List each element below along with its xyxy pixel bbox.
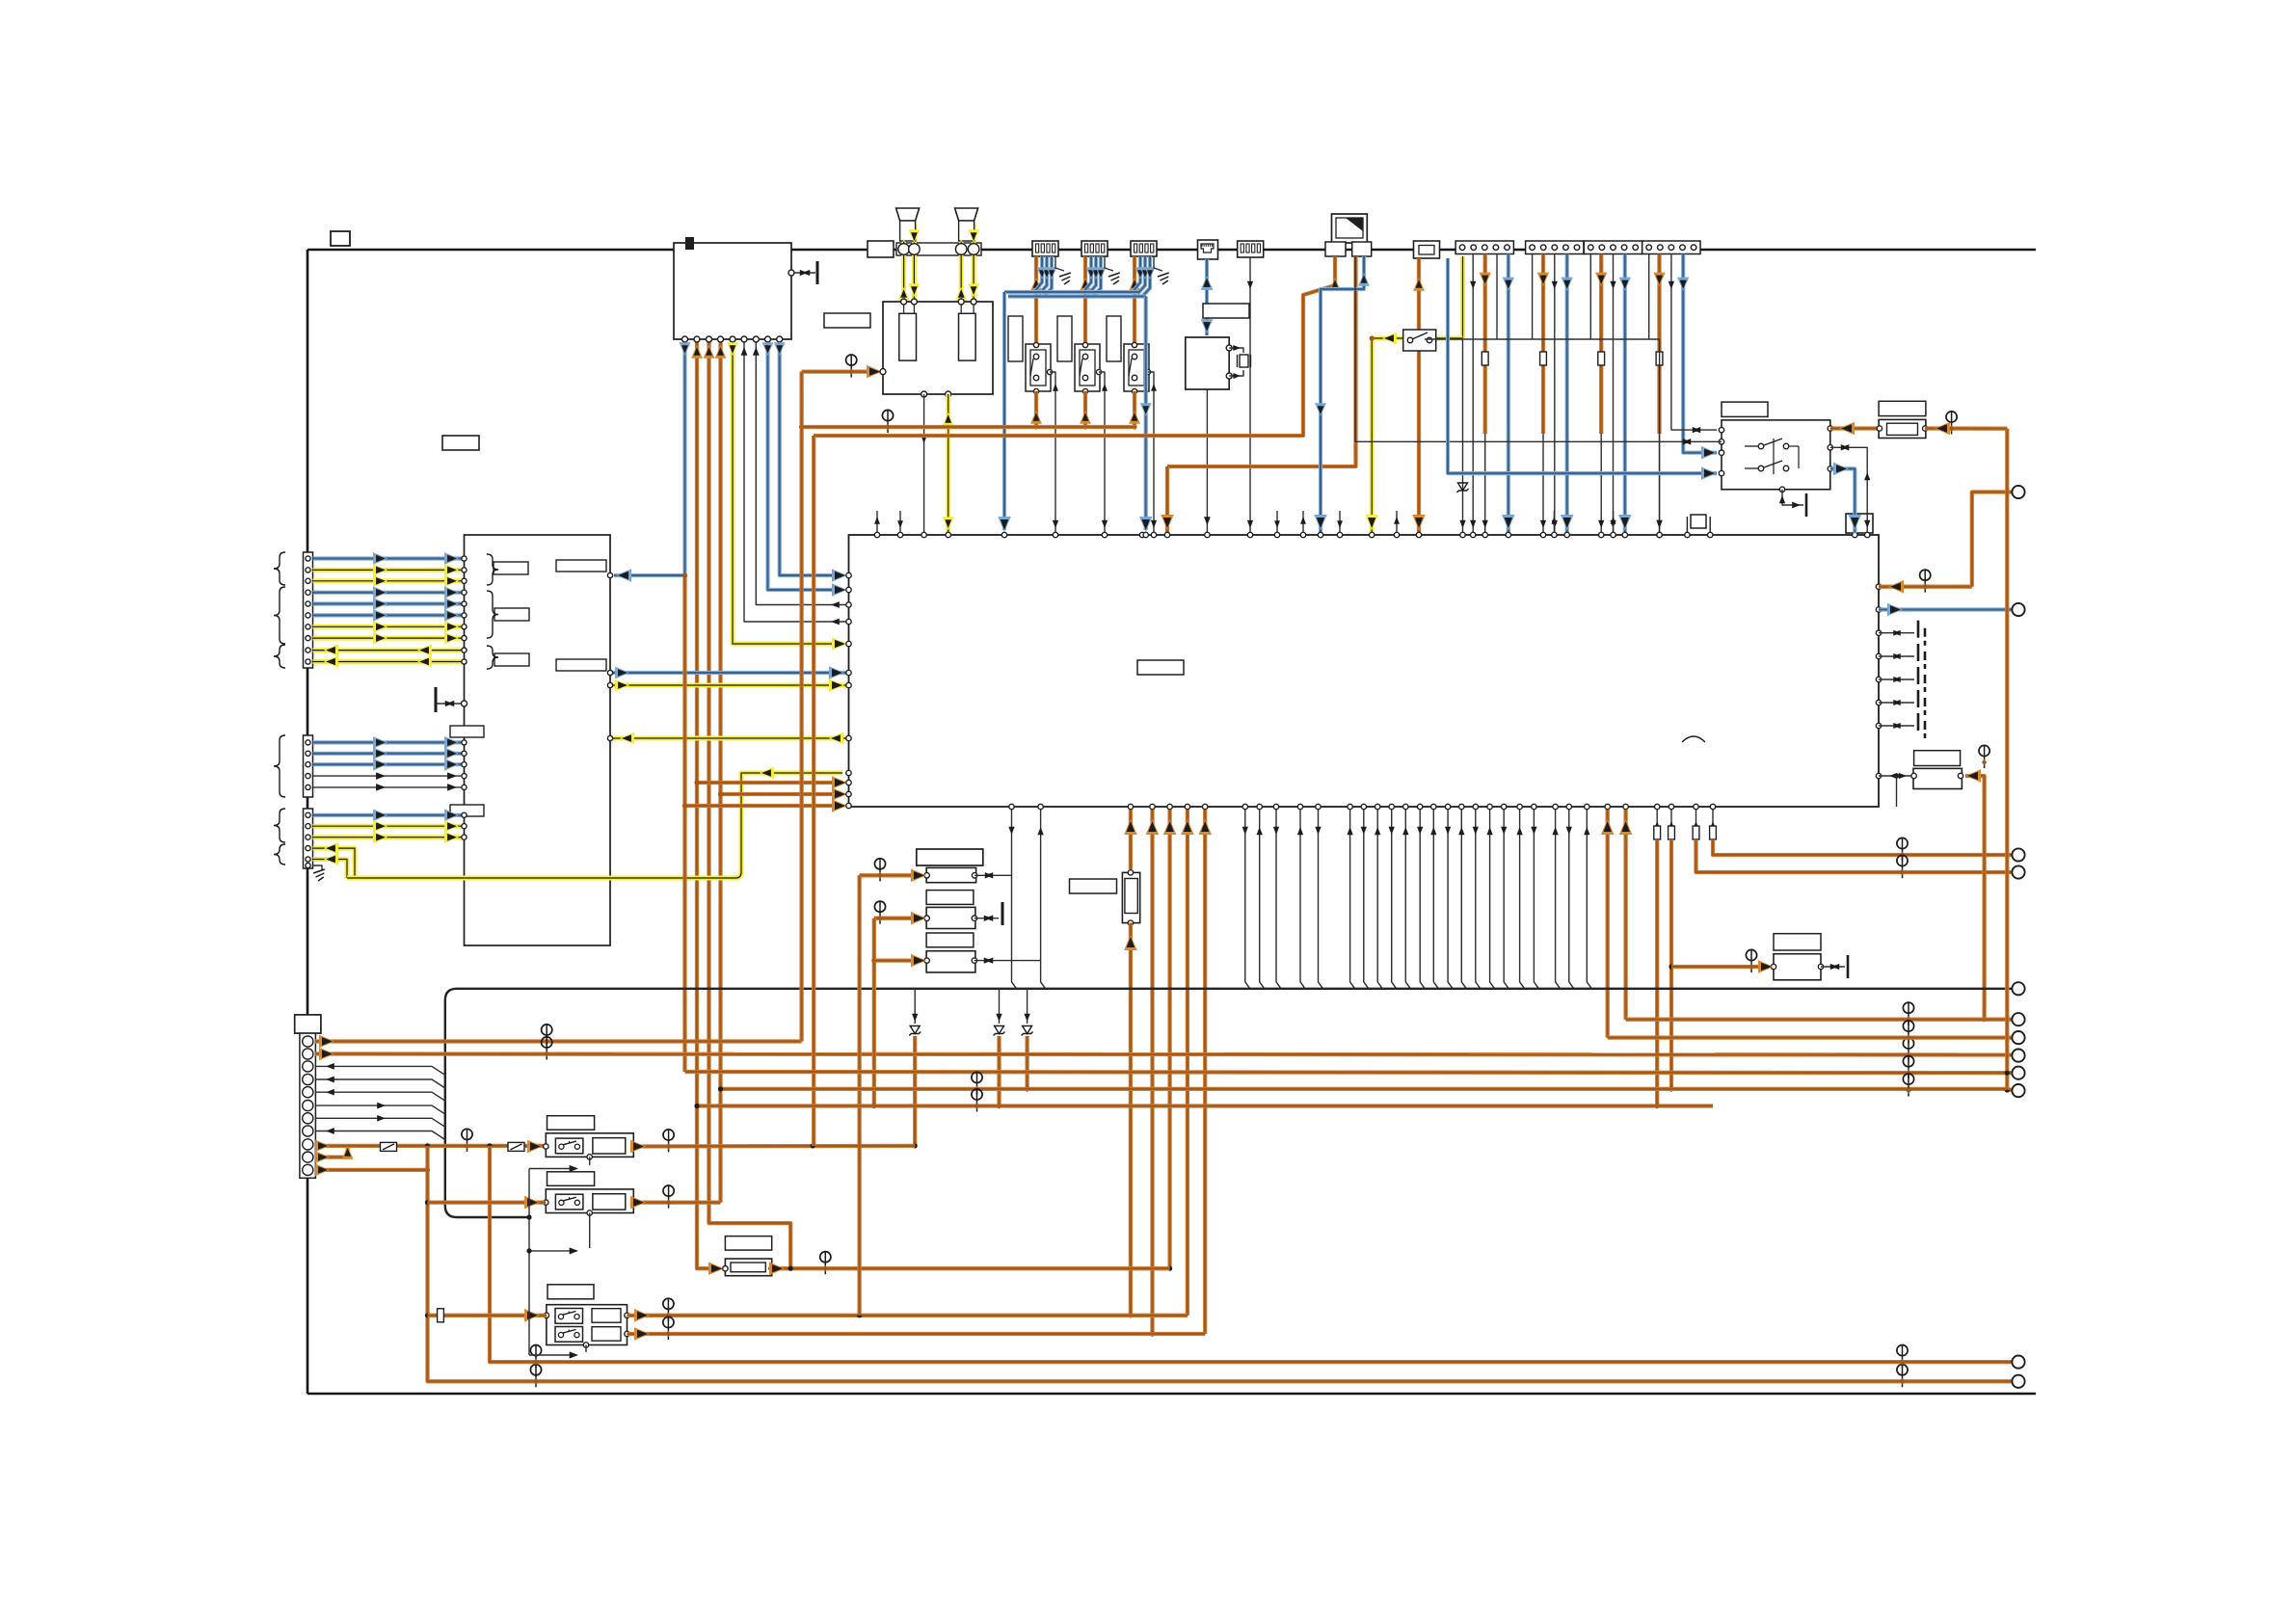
left strip2 wire y793 xyxy=(313,762,465,766)
relay-A bottom pins xyxy=(682,336,688,342)
relay body xyxy=(546,1189,633,1213)
blower stack top box xyxy=(917,849,983,865)
resistor output line xyxy=(772,1266,1170,1270)
left strip1 wire y591 xyxy=(313,568,465,572)
strip wires down to ECU xyxy=(1462,339,1464,533)
frame top line xyxy=(307,249,2036,252)
relay 3 double xyxy=(547,1285,594,1299)
relay2 output joining pin4 drop xyxy=(633,1200,720,1204)
key switch box xyxy=(1403,330,1436,351)
resistor R body xyxy=(1879,419,1926,438)
relay3 outputs to ECU pins xyxy=(627,1314,1188,1317)
left strip2 wire y781 xyxy=(313,752,465,756)
ECU right blue output xyxy=(1879,607,2012,611)
horn yellow wires down to relay B xyxy=(901,224,906,302)
main resistor component xyxy=(725,1237,771,1251)
relay label box xyxy=(547,1172,595,1186)
relay D left pins xyxy=(1719,427,1723,432)
JB row2 orange rail C to terminal xyxy=(315,1054,2012,1055)
orange H443 bus feeding switches xyxy=(802,425,1136,429)
stack box5 xyxy=(926,933,974,947)
relay D orange feed from resistor R xyxy=(1830,426,1879,430)
orange drop x1195.5 to relay3 line2 xyxy=(1150,810,1154,1334)
left strip3 yellow return wires joining Y-bus xyxy=(313,848,356,878)
strip black wires xyxy=(1648,254,1650,340)
mid-right relay G xyxy=(1774,934,1821,950)
ECU fused bottom pins x4 xyxy=(1655,804,1660,809)
orange drop x1172.9 through sensor to relay3 line xyxy=(1129,810,1133,869)
ECU bottom pins and black drops to bus xyxy=(1009,804,1014,809)
meter block body xyxy=(465,535,611,945)
strip orange fused wire xyxy=(1483,254,1487,435)
strip black wires xyxy=(1532,254,1534,340)
junction block connector strip xyxy=(300,1033,316,1178)
orange drop x1231.9 relay3 line1 corner xyxy=(1186,810,1189,1316)
relay D pin2 link down to ECU xyxy=(1830,447,1867,533)
meter-ECU blue wire y698 xyxy=(610,671,849,675)
ECU main box xyxy=(849,535,1880,807)
strip blue wire xyxy=(1623,254,1627,534)
relay D label xyxy=(1722,402,1768,416)
left strip3 wire y857 xyxy=(313,824,465,829)
box C black wire to ECU xyxy=(1206,389,1208,533)
orange rail E xyxy=(721,1087,2008,1091)
connector box on relay-D drop wires xyxy=(1846,514,1873,533)
relay-A side pin to shield bar xyxy=(791,272,815,274)
ECU right edge pins xyxy=(1876,584,1881,589)
relay-B bottom pins wires to ECU top xyxy=(921,391,927,397)
ECU inner label xyxy=(1137,660,1184,675)
aux pins connector xyxy=(1238,241,1264,257)
amplifier orange feed from bus line A xyxy=(1965,776,1985,1020)
orange drop x1686.6 to bus line A xyxy=(1623,810,1627,1020)
crystal on ECU top edge xyxy=(1691,515,1706,528)
left strip2 wire y770 xyxy=(313,740,465,744)
meter shield symbol xyxy=(436,703,465,705)
strip orange fused wire xyxy=(1541,254,1545,435)
relay D switch contacts xyxy=(1758,443,1764,449)
drop x508 to bottom rail1 xyxy=(490,1146,2012,1362)
orange branch display to ECU pin 1211 xyxy=(1167,256,1356,466)
left strip1 wire y579 xyxy=(313,556,465,560)
blue wire diag to box C xyxy=(1205,259,1209,335)
left strip3 wire y868 xyxy=(313,835,465,839)
wire relay-A pin4 orange vertical joining relay2 output xyxy=(718,339,722,1203)
strip blue wire xyxy=(1507,254,1510,534)
meter-ECU yellow wire y711 xyxy=(610,683,849,688)
orange drop x1250.2 relay3 line2 corner xyxy=(1203,810,1207,1334)
stack orange feeds xyxy=(860,873,921,877)
relay G orange feed from fused drop xyxy=(1671,965,1769,969)
relay box B horn relay xyxy=(883,302,993,394)
left strip1 wire y614 xyxy=(313,591,465,595)
ECU left edge orange rows xyxy=(697,781,842,785)
drop x443.5 feeding relays 2-3 and bottom rail2 xyxy=(428,1146,2013,1381)
left strip3 ground xyxy=(306,863,310,867)
wire relay-A pin3 orange vertical then right and down to resistor output node xyxy=(709,339,791,1268)
zener feeds from bus to orange rails xyxy=(914,989,916,1024)
relay1 output to zener riser xyxy=(633,1144,915,1149)
blue bus A to ECU xyxy=(1004,290,1138,294)
relay G ground side xyxy=(1821,966,1845,968)
strip orange fused wire xyxy=(1599,254,1603,435)
left connector strip 1 xyxy=(304,552,313,668)
meter block label box xyxy=(442,436,479,450)
relay coil control black lines xyxy=(528,1169,530,1356)
orange rail D xyxy=(685,1072,2013,1073)
relay D blue input row 491 xyxy=(1448,258,1717,473)
JB row1 orange feed to relay-B riser xyxy=(315,1039,802,1043)
junction block label box xyxy=(295,1015,321,1033)
display unit icon xyxy=(1332,214,1368,243)
left strip2 wire y805 xyxy=(313,775,465,777)
meter inner label boxes xyxy=(494,562,528,574)
meter-ECU yellow wire y766 return xyxy=(610,736,849,741)
stack right side links xyxy=(974,874,1011,876)
vertical riser x844 from display net to relay1 node xyxy=(812,436,815,1146)
black bus linking strips xyxy=(1425,338,1660,340)
small connector with orange and yellow outputs xyxy=(1414,241,1440,258)
meter inner braces xyxy=(487,554,498,585)
orange wire from connector to ECU xyxy=(1417,258,1421,533)
yellow ignition switch net xyxy=(1460,256,1465,338)
stack box2 with pins xyxy=(926,867,976,882)
left strip1 wire y674 xyxy=(313,648,465,652)
orange vertical x710 from meter node down to rail D xyxy=(682,575,686,1072)
orange drop x1667.7 to bus line B xyxy=(1606,810,1610,1038)
relay2 input from drop xyxy=(428,1200,547,1204)
stack box4 with pins xyxy=(926,907,975,928)
frame bottom line xyxy=(307,1393,2036,1396)
relay box A xyxy=(674,243,791,339)
relay D black feed from display area xyxy=(1355,256,1722,441)
left strip1 wire y626 xyxy=(313,601,465,605)
ignition coil connectors and switches x3 xyxy=(1032,241,1058,256)
relay D common pin ground arrow xyxy=(1779,487,1784,492)
orange drop from resistor R to rail E xyxy=(2005,429,2009,1090)
display blue wire to ECU xyxy=(1321,256,1364,533)
relay D right pins xyxy=(1828,426,1832,431)
wire relay-A pin8 blue to ECU xyxy=(768,339,843,590)
relay label box xyxy=(547,1116,595,1131)
ECU right comb of shield stubs xyxy=(1879,632,1914,634)
left strip3 wire y845 xyxy=(313,813,465,817)
wire relay-A pin1 blue down-left to meter block xyxy=(614,339,685,575)
ECU left edge pins xyxy=(846,572,851,577)
engine sensor component xyxy=(1070,879,1117,893)
four 5-pin connector strips with fused feeds xyxy=(1455,241,1513,254)
ECU top edge pins xyxy=(874,532,879,537)
wire relay-A pin7 black to ECU xyxy=(756,339,849,605)
stack box6 with pins xyxy=(926,951,975,972)
horn symbols and terminal strip xyxy=(868,241,894,257)
ECU right orange feed xyxy=(1879,585,1972,589)
wire relay-A pin6 black to ECU xyxy=(744,339,849,622)
blue bus B to ECU xyxy=(1008,294,1146,298)
aux connector black wire to ECU xyxy=(1249,257,1251,533)
ECU ground bus with rounded corner xyxy=(445,989,2012,1217)
strip blue wire xyxy=(1565,254,1569,534)
diagnostic connector RJ jack xyxy=(1198,240,1218,259)
orange rail B from ECU drop xyxy=(1608,1035,2012,1039)
stack box3 xyxy=(926,891,974,905)
orange rail F xyxy=(697,1104,1713,1107)
resistor R orange feed from terminal ring xyxy=(1925,426,2007,431)
JB row11 orange to lower feed xyxy=(315,1168,428,1172)
frame corner label box xyxy=(331,231,350,246)
frame left line xyxy=(307,250,309,1394)
display orange wire to riser x844 xyxy=(814,256,1335,436)
left strip1 wire y686 xyxy=(313,659,465,664)
ECU bottom orange pins xyxy=(1128,804,1133,809)
left strip1 wire y602 xyxy=(313,578,465,583)
relay body xyxy=(546,1133,633,1157)
JB rows 9+10 orange merge into relay feed xyxy=(315,1146,348,1157)
left connector strip 3 xyxy=(304,809,313,868)
amplifier link to ECU xyxy=(1879,775,1914,777)
left strip1 wire y662 xyxy=(313,636,465,641)
resistor R label xyxy=(1879,401,1926,415)
left connector strip 2 xyxy=(304,735,313,797)
vertical riser x831 from JB row1 to relay B xyxy=(799,372,803,1042)
spare black stubs on ECU top xyxy=(876,511,878,533)
strip orange fused wire xyxy=(1657,254,1661,435)
relay B label box xyxy=(824,313,870,328)
relay3 input xyxy=(428,1314,547,1317)
yellow bus from strip3 to ECU xyxy=(347,876,735,881)
orange feed into relay B from riser x831 xyxy=(802,369,878,373)
amplifier boxes at ECU right xyxy=(1914,751,1961,766)
left strip1 wire y650 xyxy=(313,625,465,629)
relay D blue output down to ECU xyxy=(1830,468,1855,533)
strip blue wire xyxy=(1683,254,1717,453)
orange drop x1213.6 to resistor output xyxy=(1167,810,1171,1268)
wire relay-A pin9 blue to ECU xyxy=(780,339,842,575)
box C immobiliser with crystal xyxy=(1203,304,1249,318)
wire relay-A pin5 yellow to ECU pin xyxy=(733,339,842,644)
wire relay-A pin2 orange long vertical to resistor row xyxy=(697,339,719,1268)
JB rows 3-8 black wires merging to ground bus xyxy=(315,1066,445,1075)
strip black wires xyxy=(1589,254,1591,340)
orange rail E terminal xyxy=(2007,1089,2012,1090)
orange rail A from ECU drop xyxy=(1626,1018,2012,1022)
left strip2 wire y816 xyxy=(313,786,465,788)
relay D body xyxy=(1722,420,1830,490)
left strip1 wire y638 xyxy=(313,613,465,617)
